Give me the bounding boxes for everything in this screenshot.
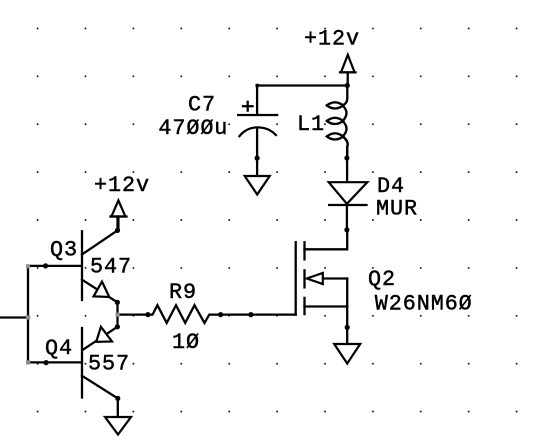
svg-text:Q3: Q3 [50,238,78,263]
svg-text:557: 557 [88,352,130,377]
svg-text:L1: L1 [297,112,325,137]
svg-text:+12v: +12v [304,26,360,51]
svg-text:+12v: +12v [94,173,150,198]
svg-text:547: 547 [90,255,132,280]
svg-text:W26NM6Ø: W26NM6Ø [375,292,473,317]
svg-text:R9: R9 [169,280,197,305]
svg-text:D4: D4 [377,174,405,199]
svg-text:1Ø: 1Ø [172,330,200,355]
svg-text:MUR: MUR [376,197,418,222]
svg-text:Q2: Q2 [368,267,396,292]
svg-text:C7: C7 [188,93,216,118]
svg-text:Q4: Q4 [45,336,73,361]
svg-text:47ØØu: 47ØØu [158,116,228,141]
